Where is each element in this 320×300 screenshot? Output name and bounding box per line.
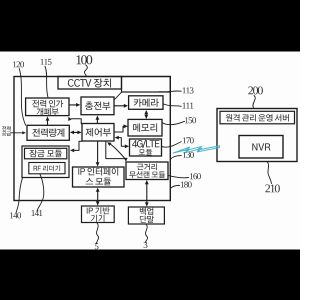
charger box 충전부	[81, 97, 114, 115]
label 210	[265, 184, 280, 192]
controller box 제어부	[82, 124, 114, 142]
lock module title box 잠금 모듈	[25, 148, 67, 159]
leader 130	[171, 156, 182, 160]
arrow controller to memory stepped	[115, 126, 125, 132]
double arrow controller-4G/LTE stepped	[118, 138, 126, 147]
label 5	[95, 243, 99, 249]
IP interface module box IP 인터페이스 모듈	[73, 167, 125, 187]
title text CCTV 장치	[68, 78, 111, 87]
lock module container	[22, 146, 69, 178]
double arrow IP interface - IP device	[97, 191, 99, 203]
CCTV device title box	[58, 77, 122, 90]
arrow controller to WLAN L-path	[106, 142, 126, 159]
double arrow camera-memory	[145, 113, 147, 116]
label 141	[32, 210, 43, 216]
leader 120	[19, 69, 25, 126]
arrow controller down to IP interface module	[97, 142, 99, 163]
leader squiggle 100	[84, 65, 87, 77]
label 3	[144, 242, 148, 248]
remote management server box 200	[217, 109, 297, 162]
arrow controller top-left stepped to power switch corner	[72, 119, 82, 124]
arrow power-switch to charger	[70, 104, 77, 106]
camera box 카메라	[129, 96, 163, 110]
double arrow meter-controller	[73, 131, 79, 133]
label 140	[10, 212, 21, 218]
squiggle 5	[96, 223, 98, 244]
diagonal wire charger to camera corner	[115, 92, 122, 99]
backup terminal box 백업 단말	[128, 207, 164, 224]
arrow controller up to charger	[96, 119, 98, 123]
lightning bolt wireless link	[173, 146, 220, 153]
leader 150	[162, 121, 184, 124]
memory box 메모리	[128, 119, 162, 136]
leader 113	[160, 90, 182, 93]
4G/LTE module box	[130, 139, 162, 156]
leader 170	[162, 142, 181, 148]
squiggle 3	[146, 224, 148, 242]
double arrow WLAN - backup terminal	[146, 183, 148, 204]
CCTV device outer box	[14, 77, 170, 201]
power meter box 전력량계	[27, 125, 69, 140]
leader 140	[16, 178, 23, 213]
label 100	[76, 55, 92, 64]
leader 180	[170, 185, 179, 188]
leader 160	[168, 176, 188, 178]
arrow meter up to power switch	[47, 120, 49, 125]
power switch box 전력 인가 개폐부	[26, 98, 69, 116]
leader 141	[37, 174, 44, 211]
squiggle 200	[253, 96, 255, 109]
arrow controller to lock module stepped	[74, 141, 83, 150]
label 200	[248, 86, 263, 94]
squiggle 210	[267, 162, 271, 184]
RF reader box RF 리더기	[29, 163, 65, 174]
label 180	[181, 182, 192, 188]
power supply vertical text 전력 공급	[2, 126, 11, 131]
label 120	[13, 61, 24, 67]
top black bar	[0, 0, 300, 52]
label 130	[183, 152, 194, 158]
short-range WLAN module box 근거리 무선랜 모듈	[126, 162, 168, 180]
label 115	[41, 59, 52, 65]
IP device box IP 기반 기기	[82, 206, 115, 223]
label 113	[183, 87, 194, 93]
label 170	[183, 137, 194, 143]
arrow charger to camera	[115, 105, 125, 107]
label 160	[190, 173, 201, 179]
power supply arrow into meter	[11, 132, 22, 134]
leader 115	[45, 66, 48, 97]
label 111	[183, 103, 194, 109]
arc WLAN to controller	[110, 144, 127, 161]
server title box 원격 관리 운영 서버	[220, 111, 295, 124]
bottom black bar	[0, 250, 300, 300]
NVR box	[239, 136, 283, 159]
empty box top-right	[122, 77, 171, 93]
label 150	[185, 117, 196, 123]
leader 111	[163, 104, 181, 107]
